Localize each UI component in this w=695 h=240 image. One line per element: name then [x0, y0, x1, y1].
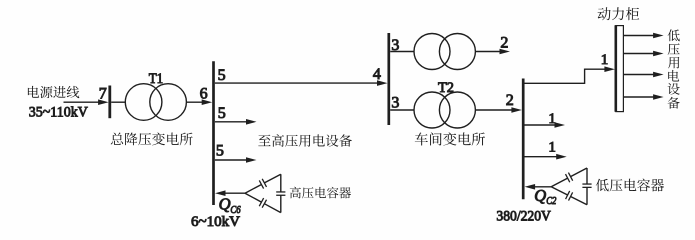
label 2 (top) [500, 35, 508, 52]
svg-text:6: 6 [200, 85, 208, 102]
svg-text:2: 2 [506, 92, 514, 109]
label 3 (bottom) [391, 94, 399, 111]
node 7 bar [108, 86, 111, 119]
label 5 (branch 3) [216, 143, 224, 160]
svg-text:1: 1 [548, 111, 556, 127]
bus 6~10kV [212, 61, 215, 205]
capacitor bank QC6 (delta of 3 capacitors) [245, 174, 285, 212]
svg-text:C6: C6 [230, 205, 241, 216]
label QC2 [534, 186, 557, 207]
wire bus3 to capacitor bank QC2 (arrow toward bus) [525, 184, 552, 190]
svg-text:3: 3 [391, 94, 399, 111]
wire branch arrow 2 [525, 154, 567, 160]
text 低压用电设备 vertical (LV consumers) [668, 29, 680, 108]
bus node 4 [387, 33, 390, 125]
text 车间变电所 (workshop substation) [415, 132, 485, 145]
wire T1 to bus node 6 with arrow [186, 99, 212, 105]
label 380/220V [496, 208, 551, 224]
label 1 (branch 2) [548, 140, 556, 156]
wire incoming feeder with arrow [64, 99, 109, 105]
svg-text:T1: T1 [149, 71, 164, 87]
svg-text:4: 4 [373, 66, 381, 83]
label 6~10kV [191, 214, 240, 230]
wire top transformer out with arrow [475, 49, 510, 55]
wire cabinet output arrow 4 [624, 94, 664, 100]
svg-text:C2: C2 [546, 196, 557, 207]
power cabinet bar 动力柜 [616, 25, 624, 112]
svg-text:1: 1 [548, 140, 556, 156]
svg-text:T2: T2 [438, 80, 454, 96]
bus 380/220V [522, 79, 525, 200]
wire bus1 to capacitor bank QC6 (arrow toward bus) [215, 190, 245, 196]
wire branch arrow (to HV equipment) 2 [215, 157, 257, 163]
svg-text:6~10kV: 6~10kV [191, 214, 240, 230]
text 电源进线 (power supply incoming line) [28, 86, 79, 98]
label 7 [99, 85, 107, 102]
transformer T1 [125, 84, 186, 121]
wire T2 to bus 380/220V with arrow [475, 107, 522, 113]
text 动力柜 (power cabinet) [598, 7, 640, 20]
label 3 (top) [391, 37, 399, 54]
label QC6 [219, 195, 242, 216]
label 5 (branch 2) [218, 105, 226, 122]
wire branch arrow 1 [525, 122, 566, 128]
svg-text:5: 5 [218, 67, 226, 84]
svg-text:Q: Q [219, 195, 231, 214]
text 总降压变电所 (main step-down substation) [111, 132, 193, 145]
transformer T2 [414, 92, 475, 128]
label 1 (cabinet feed) [601, 52, 609, 68]
transformer (top, workshop) [414, 34, 475, 70]
capacitor bank QC2 (delta of 3 capacitors) [551, 168, 591, 205]
wire branch arrow (to HV equipment) [215, 119, 257, 125]
label T1 [149, 71, 164, 87]
text 低压电容器 (LV capacitor) [596, 179, 664, 192]
svg-text:5: 5 [216, 143, 224, 160]
label 5 (feeder to node 4) [218, 67, 226, 84]
label 6 [200, 85, 208, 102]
wire bus4 to T2 [390, 109, 414, 111]
text 高压电容器 (HV capacitor) [290, 187, 351, 199]
label T2 [438, 80, 454, 96]
svg-text:2: 2 [500, 35, 508, 52]
label 35~110kV [29, 105, 88, 121]
wire bus1 to bus node4 with arrow [215, 80, 388, 86]
label 4 [373, 66, 381, 83]
wire node 7 to T1 [111, 101, 125, 103]
svg-text:1: 1 [601, 52, 609, 68]
svg-text:Q: Q [534, 186, 546, 205]
wire cabinet output arrow 2 [624, 51, 664, 57]
wire bus4 to top transformer [390, 51, 414, 53]
text 至高压用电设备 (to HV consumers) [258, 134, 352, 147]
wire cabinet output arrow 3 [624, 72, 664, 78]
label 2 (bottom) [506, 92, 514, 109]
wire bus3 to power cabinet (jog) with arrow [525, 66, 615, 84]
label 1 (branch) [548, 111, 556, 127]
svg-text:380/220V: 380/220V [496, 208, 551, 224]
svg-text:5: 5 [218, 105, 226, 122]
svg-text:35~110kV: 35~110kV [29, 105, 88, 121]
svg-text:7: 7 [99, 85, 107, 102]
wire cabinet output arrow 1 [624, 33, 664, 39]
